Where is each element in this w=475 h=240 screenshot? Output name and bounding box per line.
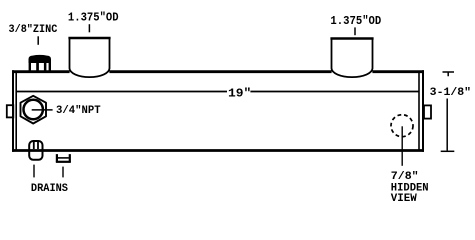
3-1/8 dimension bottom tick bbox=[441, 150, 455, 152]
3/4 NPT leader bbox=[32, 109, 53, 111]
drain plug 1 (hex) bbox=[29, 141, 42, 160]
tank bottom edge bbox=[12, 149, 424, 152]
hidden view leader bbox=[401, 126, 403, 166]
left mounting tab bbox=[7, 105, 14, 117]
tank left inner wall bbox=[15, 73, 17, 150]
drain plug 2 (square) bbox=[57, 154, 70, 162]
NPT port circle bbox=[24, 100, 43, 119]
svg-text:3-1/8": 3-1/8" bbox=[430, 87, 471, 99]
svg-text:7/8": 7/8" bbox=[391, 171, 419, 183]
svg-text:19": 19" bbox=[228, 86, 251, 100]
1.375 OD leader left bbox=[88, 24, 90, 32]
svg-text:3/4"NPT: 3/4"NPT bbox=[56, 105, 101, 117]
svg-text:DRAINS: DRAINS bbox=[31, 183, 68, 195]
tank right inner wall bbox=[418, 73, 420, 150]
NPT hex boss bbox=[21, 96, 47, 124]
1.375 OD leader right bbox=[354, 27, 356, 35]
zinc anode plug legs bbox=[29, 62, 51, 71]
svg-text:3/8"ZINC: 3/8"ZINC bbox=[9, 24, 58, 36]
drain plug 2 rim line bbox=[58, 157, 69, 159]
drains leader 2 bbox=[62, 167, 64, 178]
svg-text:1.375"OD: 1.375"OD bbox=[330, 14, 381, 28]
drains leader 1 bbox=[33, 165, 35, 178]
3-1/8 dimension top tick bbox=[443, 72, 455, 76]
zinc anode plug head bbox=[29, 55, 52, 63]
tank top edge bbox=[12, 70, 424, 73]
hidden view dashed circle bbox=[391, 115, 413, 137]
19 inch dimension line bbox=[17, 91, 420, 93]
drain plug 1 facets bbox=[34, 141, 38, 149]
port 2 (right 1.375 OD) bbox=[330, 38, 373, 78]
svg-text:VIEW: VIEW bbox=[391, 193, 417, 205]
port 1 (left 1.375 OD) bbox=[68, 37, 110, 77]
3/8 ZINC leader bbox=[37, 36, 39, 45]
3-1/8 dimension line bbox=[446, 99, 448, 151]
tank left outer wall bbox=[12, 70, 14, 152]
right mounting tab bbox=[424, 105, 431, 118]
tank right outer wall bbox=[422, 70, 424, 152]
svg-text:1.375"OD: 1.375"OD bbox=[68, 11, 119, 25]
drain plug 2 bottom bbox=[56, 161, 71, 163]
